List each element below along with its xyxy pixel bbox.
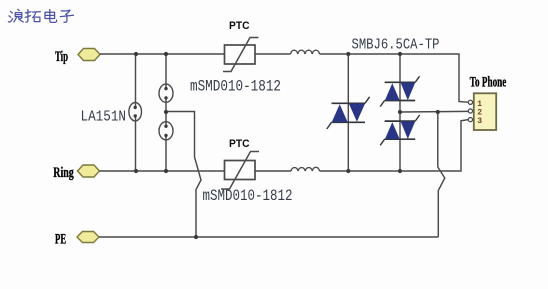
wire Tip right segment to connector pin 1: [320, 54, 469, 102]
port Ring: [78, 165, 100, 177]
wire Tip left segment: [100, 53, 225, 55]
wire Ring right segment to connector pin 3: [320, 120, 469, 171]
wire gas-tube branch 1 vertical: [135, 54, 137, 171]
junction pin2 node: [436, 110, 440, 114]
junction Ring/G2: [164, 169, 168, 173]
junction Tip/G2: [164, 52, 168, 56]
wire TVS D2 D3 vertical: [399, 54, 401, 171]
TVS diode D1: [327, 97, 370, 129]
junction Tip/D1: [346, 52, 350, 56]
junction Tip/G1: [134, 52, 138, 56]
PTC fuse F2: [221, 152, 259, 190]
junction D2/D3 midpoint: [398, 110, 402, 114]
svg-text:PTC: PTC: [229, 138, 250, 150]
wire PE segment: [99, 236, 438, 238]
svg-text:PE: PE: [55, 232, 66, 248]
svg-text:Ring: Ring: [53, 165, 74, 181]
TVS diode D2: [380, 76, 419, 106]
svg-text:PTC: PTC: [229, 20, 250, 32]
wire TVS D1 vertical: [347, 54, 349, 171]
wire gas-tube branch 2 vertical: [165, 54, 167, 171]
wire pin2 node down to PE: [438, 112, 445, 237]
junction Ring/G1: [134, 169, 138, 173]
connector pin 3 circle: [468, 118, 472, 122]
junction Tip/D2: [398, 52, 402, 56]
inductor L2: [291, 167, 320, 171]
gas discharge tube G1: [129, 103, 142, 121]
PTC fuse F1: [223, 38, 259, 72]
wire TVS midpoint to connector pin 2: [400, 110, 468, 113]
connector J1 body: [474, 93, 496, 130]
svg-text:3: 3: [477, 117, 482, 126]
wire Ring left segment: [100, 170, 225, 172]
wire Tip middle segment: [255, 53, 291, 55]
inductor L1: [291, 50, 320, 54]
port Tip: [78, 49, 100, 61]
wire Ring middle segment: [255, 170, 291, 172]
svg-text:LA151N: LA151N: [81, 109, 127, 126]
svg-text:Tip: Tip: [55, 49, 68, 65]
svg-text:mSMD010-1812: mSMD010-1812: [190, 78, 281, 96]
connector pin 1 circle: [468, 100, 472, 104]
svg-text:SMBJ6.5CA-TP: SMBJ6.5CA-TP: [352, 36, 440, 53]
wire gas-tube center electrode to PE: [166, 112, 201, 238]
TVS diode D3: [380, 115, 419, 145]
junction G2 center electrode: [164, 110, 168, 114]
svg-text:To Phone: To Phone: [470, 75, 507, 91]
junction PE/G2 electrode: [194, 235, 198, 239]
logo watermark "浪拓电子": [8, 9, 73, 22]
port PE: [77, 232, 99, 243]
gas discharge tube G2 lower: [159, 122, 173, 140]
gas discharge tube G2 upper: [159, 84, 173, 102]
junction Ring/D1: [346, 169, 350, 173]
junction Ring/D3: [398, 169, 402, 173]
svg-text:mSMD010-1812: mSMD010-1812: [203, 187, 293, 205]
connector pin 2 circle: [468, 109, 472, 113]
